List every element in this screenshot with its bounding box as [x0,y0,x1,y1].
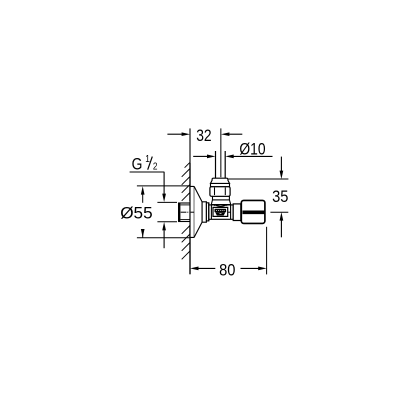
nipple white halo [177,201,190,225]
svg-text:80: 80 [219,262,236,280]
dimension Ø55 arrows [141,186,145,237]
GROHE logo plate [213,207,228,216]
dimension 35 extension line [228,178,288,180]
handle [241,200,265,223]
svg-text:Ø10: Ø10 [239,141,265,159]
wall line [189,128,191,274]
pipe centerline extension [220,128,222,177]
axis centerline left (dash-dot through nipple) [181,211,194,213]
svg-text:1: 1 [145,154,150,165]
label G1/2 underline and leader [130,172,165,248]
GROHE logo [215,209,227,216]
valve seat bowl [214,201,228,207]
nut taper and cap [211,178,230,183]
svg-text:2: 2 [153,161,158,172]
svg-text:32: 32 [196,127,211,145]
wall hatching [182,162,190,259]
handle groove [243,211,265,215]
compression nut hex [210,187,230,197]
dimension G1/2 arrows [162,194,166,231]
svg-text:Ø55: Ø55 [120,203,152,222]
dimension G1/2 extension lines [157,202,178,221]
dimension 32 line and arrows [167,133,242,135]
nut ring [211,183,230,186]
escutcheon cone [194,187,202,237]
valve body [209,203,233,221]
svg-text:G: G [132,155,143,173]
svg-text:35: 35 [272,189,288,207]
dimension Ø55 extension lines [137,186,190,238]
valve stem [233,204,241,221]
dimension Ø10 leader and arrows [193,155,272,157]
escutcheon neck A [202,202,206,222]
pipe Ø10 [216,151,226,178]
dimension 80 line and arrows [198,267,259,269]
shoulder flare [211,200,230,204]
G1/2 threaded nipple [179,203,190,222]
inlet hub sides [211,204,230,219]
escutcheon flange [190,186,194,237]
axis centerline right [228,211,288,213]
dimension 80 extension line [266,227,268,275]
dimension 35 arrows [280,157,282,238]
nut collar [213,196,230,200]
escutcheon neck B [206,203,208,221]
